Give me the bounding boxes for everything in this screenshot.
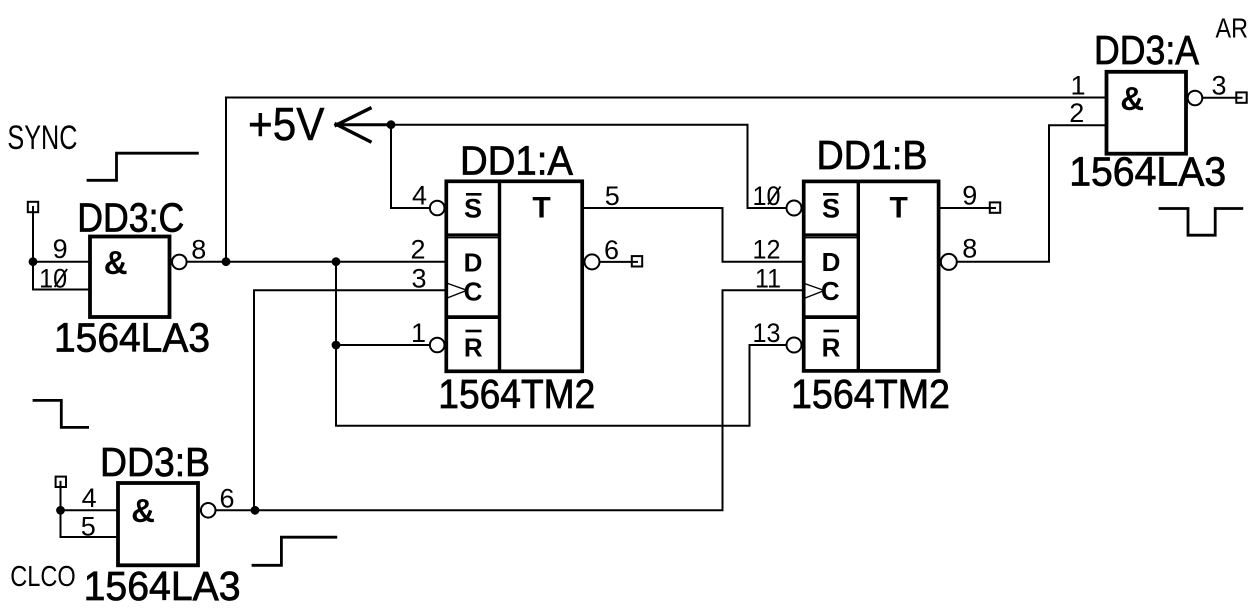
svg-text:AR: AR [1216, 13, 1249, 44]
svg-text:C: C [464, 276, 483, 306]
svg-text:6: 6 [220, 484, 235, 514]
svg-text:8: 8 [191, 235, 206, 265]
svg-text:R: R [822, 333, 841, 363]
svg-text:4: 4 [412, 181, 427, 211]
svg-text:SYNC: SYNC [7, 119, 77, 157]
svg-text:D: D [822, 247, 841, 277]
svg-text:S: S [822, 194, 840, 224]
svg-text:6: 6 [604, 235, 619, 265]
svg-text:10: 10 [39, 264, 67, 294]
svg-text:DD1:A: DD1:A [460, 138, 574, 184]
svg-text:C: C [821, 276, 840, 306]
svg-text:DD3:B: DD3:B [100, 439, 210, 485]
svg-text:12: 12 [753, 235, 781, 265]
svg-text:1564TM2: 1564TM2 [438, 371, 595, 417]
svg-text:R: R [464, 333, 483, 363]
svg-text:10: 10 [753, 181, 781, 211]
svg-text:S: S [464, 194, 482, 224]
svg-text:11: 11 [755, 264, 781, 294]
svg-text:5: 5 [605, 181, 620, 211]
svg-text:2: 2 [411, 235, 426, 265]
svg-text:5: 5 [81, 512, 96, 542]
svg-text:1564LA3: 1564LA3 [84, 563, 241, 608]
svg-text:3: 3 [1212, 71, 1227, 101]
svg-text:1564LA3: 1564LA3 [1069, 149, 1226, 195]
svg-text:13: 13 [753, 318, 781, 348]
svg-text:2: 2 [1069, 98, 1084, 128]
svg-text:9: 9 [962, 181, 977, 211]
svg-text:1: 1 [411, 318, 426, 348]
svg-text:4: 4 [82, 483, 97, 513]
svg-text:DD3:A: DD3:A [1094, 27, 1200, 73]
svg-text:&: & [1120, 80, 1144, 117]
svg-text:&: & [104, 244, 128, 281]
svg-text:+5V: +5V [248, 98, 325, 150]
svg-text:3: 3 [412, 264, 427, 294]
svg-text:D: D [464, 248, 483, 278]
svg-text:8: 8 [962, 234, 977, 264]
svg-text:1564LA3: 1564LA3 [54, 315, 210, 361]
svg-text:CLCO: CLCO [10, 561, 76, 593]
svg-text:DD1:B: DD1:B [817, 132, 928, 178]
svg-text:DD3:C: DD3:C [77, 195, 184, 241]
svg-text:1: 1 [1071, 71, 1086, 101]
svg-text:T: T [532, 192, 550, 225]
svg-text:&: & [131, 492, 155, 529]
svg-text:1564TM2: 1564TM2 [791, 371, 950, 417]
svg-text:T: T [890, 192, 908, 225]
svg-text:9: 9 [53, 234, 68, 264]
